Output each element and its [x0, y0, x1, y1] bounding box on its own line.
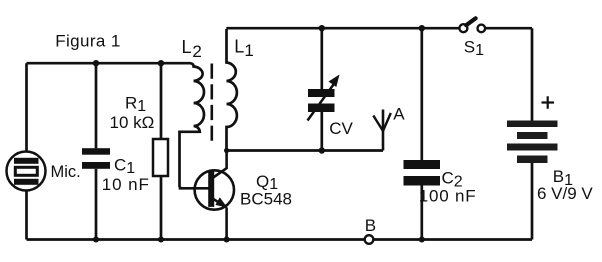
wire: right vertical (battery branch) [531, 28, 534, 239]
junction dot CV/+V rail [319, 25, 325, 31]
junction dot L1/collector [224, 148, 229, 153]
svg-text:6 V/9 V: 6 V/9 V [537, 184, 593, 203]
svg-text:100 nF: 100 nF [419, 186, 477, 205]
svg-text:Figura 1: Figura 1 [55, 32, 121, 51]
inductor L2 (primary coil) [180, 63, 205, 187]
wire: top-left rail (base node) [27, 62, 191, 65]
svg-text:BC548: BC548 [240, 190, 292, 209]
resistor R1 [153, 139, 168, 176]
battery B1 [507, 121, 558, 164]
svg-text:Mic.: Mic. [51, 163, 81, 181]
junction dot C2/+V rail [419, 25, 425, 31]
wire: left vertical (mic branch) [25, 63, 28, 239]
junction dot R1/top rail [158, 60, 164, 66]
svg-text:10 nF: 10 nF [102, 175, 150, 194]
wire: CV column [320, 28, 323, 150]
junction dot emitter/ground [224, 237, 230, 243]
wire: collector line [227, 149, 383, 152]
junction dot CV/collector line [319, 147, 325, 153]
capacitor C1 [82, 148, 110, 169]
junction dot C1/ground [93, 237, 99, 243]
switch S1 [459, 18, 485, 32]
variable capacitor CV [308, 75, 340, 121]
antenna A [373, 110, 391, 151]
wire: R1 column [160, 63, 163, 239]
wire: base connection [180, 187, 209, 189]
capacitor C2 [404, 160, 441, 186]
microphone Mic [7, 152, 46, 191]
transistor Q1 [195, 151, 234, 240]
inductor L1 (secondary coil) [227, 29, 237, 151]
svg-text:10 kΩ: 10 kΩ [110, 113, 155, 132]
transformer core (dashed) [211, 64, 214, 142]
junction dot C2/ground [419, 237, 425, 243]
label + (battery polarity) [542, 96, 555, 108]
svg-text:B: B [365, 216, 376, 235]
svg-text:A: A [393, 104, 405, 123]
wire: top-right +V rail [226, 27, 532, 30]
wire: C2 column [420, 28, 423, 239]
svg-text:CV: CV [329, 119, 353, 138]
node B (open terminal) [365, 235, 374, 244]
junction dot R1/ground [158, 237, 164, 243]
junction dot C1/top rail [93, 60, 99, 66]
wire: C1 column [95, 63, 98, 239]
wire: bottom ground rail [27, 238, 533, 241]
